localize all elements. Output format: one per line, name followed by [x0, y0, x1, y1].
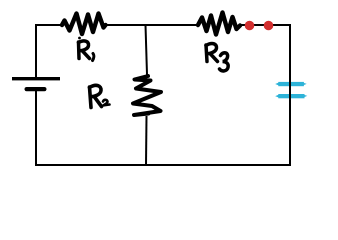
label R1: [78, 37, 94, 61]
wire: top rail middle segment (R1 to R3 through middle junction): [105, 24, 199, 26]
resistor R2 (vertical zigzag): [133, 76, 161, 115]
wire: middle branch upper segment: [146, 25, 148, 75]
node dot 1 (red): [245, 21, 255, 31]
wire: top rail left segment (top-left corner to R1): [36, 25, 63, 78]
wire: top rail right segment (R3 to top-right corner): [240, 24, 291, 26]
node dot 2 (red): [264, 21, 274, 31]
wire: bottom rail: [35, 164, 291, 166]
wire: left branch lower (battery to bottom rail): [35, 90, 37, 166]
wire: right branch (top-right corner to bottom-right corner): [289, 25, 290, 166]
resistor R3 (zigzag): [198, 13, 240, 35]
wire: middle branch lower segment: [145, 116, 148, 165]
capacitor C1 (cyan plates): [275, 82, 307, 98]
label R2: [90, 85, 110, 107]
resistor R1 (zigzag): [62, 14, 106, 35]
label R3: [206, 44, 228, 71]
battery V1: [12, 77, 60, 91]
